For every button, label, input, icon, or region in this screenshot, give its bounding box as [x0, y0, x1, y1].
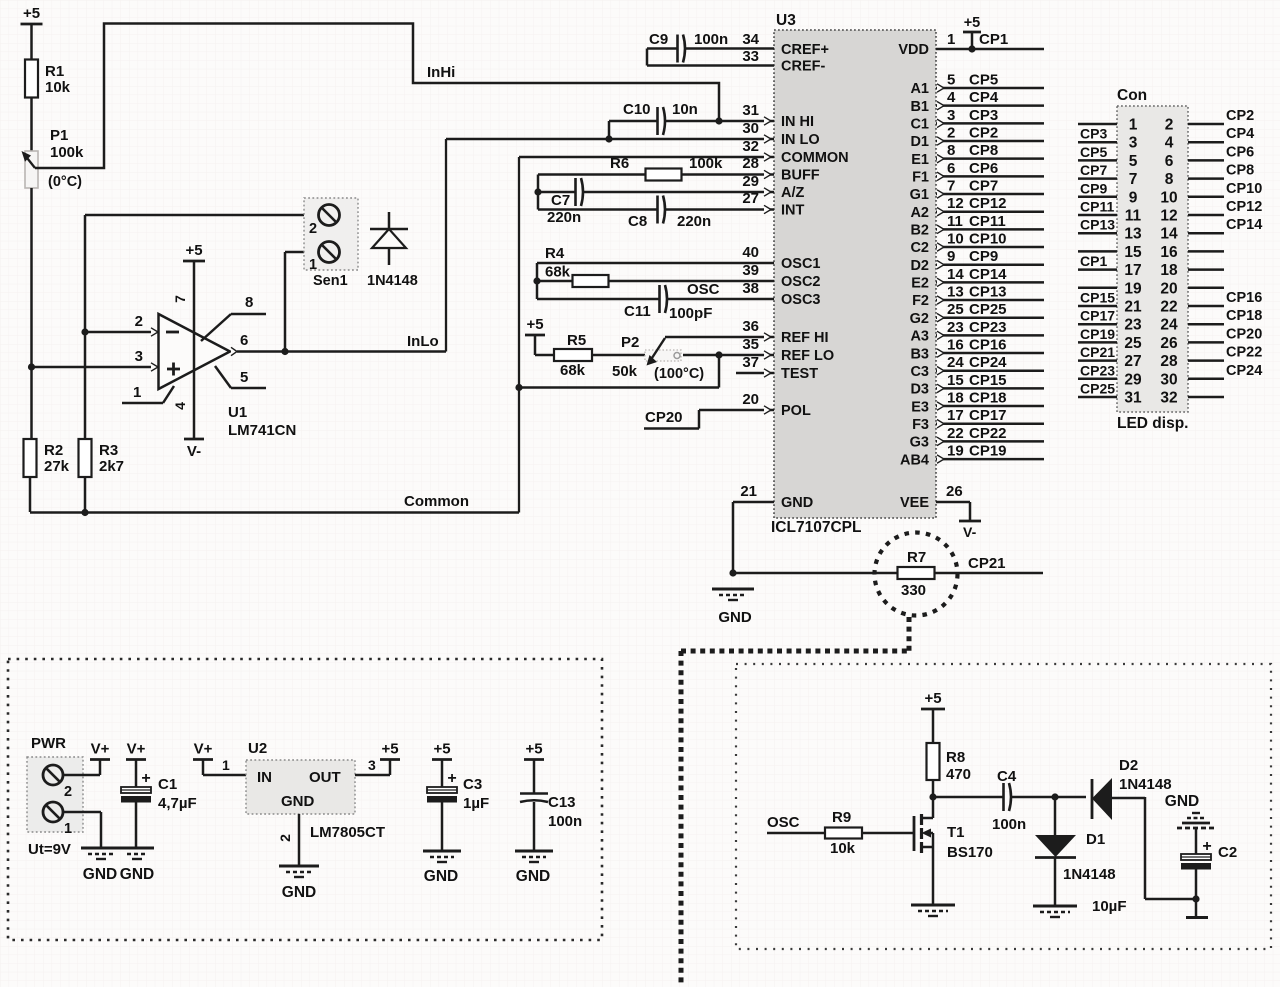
svg-text:CP18: CP18 [969, 390, 1007, 407]
svg-text:9: 9 [947, 248, 955, 265]
svg-text:2: 2 [135, 313, 143, 330]
svg-text:CP4: CP4 [969, 89, 999, 106]
svg-text:470: 470 [946, 766, 971, 783]
svg-text:31: 31 [1124, 390, 1142, 407]
svg-text:E1: E1 [911, 152, 929, 168]
svg-text:23: 23 [1124, 317, 1142, 334]
svg-text:38: 38 [742, 280, 759, 297]
svg-text:+5: +5 [185, 242, 202, 259]
svg-text:VEE: VEE [900, 495, 929, 511]
svg-text:B2: B2 [910, 223, 929, 239]
svg-text:V-: V- [187, 443, 201, 460]
svg-text:IN: IN [257, 769, 272, 786]
svg-text:CP25: CP25 [1080, 381, 1115, 397]
svg-text:3: 3 [1129, 135, 1138, 152]
svg-text:CREF+: CREF+ [781, 42, 829, 58]
svg-text:19: 19 [947, 443, 964, 460]
svg-text:GND: GND [281, 793, 315, 810]
svg-text:Ut=9V: Ut=9V [28, 841, 71, 858]
svg-text:GND: GND [718, 609, 752, 626]
svg-text:CP6: CP6 [1226, 144, 1254, 160]
svg-text:220n: 220n [677, 213, 711, 230]
svg-text:CP13: CP13 [1080, 217, 1115, 233]
svg-text:21: 21 [1124, 299, 1142, 316]
svg-text:CP9: CP9 [1080, 180, 1107, 196]
svg-text:36: 36 [742, 318, 759, 335]
svg-text:D2: D2 [910, 258, 929, 274]
svg-text:330: 330 [901, 582, 926, 599]
svg-text:R2: R2 [44, 442, 63, 459]
svg-text:GND: GND [282, 884, 316, 901]
svg-text:D1: D1 [1086, 831, 1105, 848]
svg-text:16: 16 [947, 337, 964, 354]
svg-text:CP6: CP6 [969, 160, 998, 177]
svg-text:LM7805CT: LM7805CT [310, 824, 385, 841]
svg-text:13: 13 [1124, 226, 1142, 243]
svg-text:2: 2 [1165, 117, 1174, 134]
svg-text:8: 8 [947, 142, 955, 159]
svg-text:4,7µF: 4,7µF [158, 795, 197, 812]
svg-text:OUT: OUT [309, 769, 341, 786]
svg-text:C2: C2 [1218, 844, 1237, 861]
svg-text:13: 13 [947, 284, 964, 301]
svg-text:26: 26 [946, 483, 963, 500]
svg-text:C10: C10 [623, 101, 651, 118]
svg-text:OSC2: OSC2 [781, 274, 821, 290]
svg-text:B3: B3 [910, 346, 929, 362]
svg-text:29: 29 [1124, 371, 1142, 388]
svg-text:22: 22 [947, 425, 964, 442]
svg-text:34: 34 [742, 31, 759, 48]
svg-text:CP16: CP16 [1226, 290, 1262, 306]
svg-text:+: + [447, 770, 456, 787]
svg-text:CREF-: CREF- [781, 59, 825, 75]
svg-text:B1: B1 [910, 99, 929, 115]
svg-text:INT: INT [781, 203, 805, 219]
svg-text:+5: +5 [381, 741, 398, 758]
svg-text:12: 12 [1160, 208, 1177, 225]
svg-text:20: 20 [742, 391, 759, 408]
svg-text:9: 9 [1129, 189, 1138, 206]
svg-text:25: 25 [947, 301, 964, 318]
svg-text:P1: P1 [50, 127, 68, 144]
svg-text:6: 6 [947, 160, 955, 177]
svg-text:CP8: CP8 [1226, 163, 1254, 179]
svg-text:CP18: CP18 [1226, 308, 1262, 324]
svg-text:5: 5 [947, 72, 955, 89]
svg-text:25: 25 [1124, 335, 1142, 352]
svg-text:28: 28 [1160, 353, 1178, 370]
svg-text:CP4: CP4 [1226, 126, 1254, 142]
svg-text:CP1: CP1 [979, 31, 1008, 48]
svg-text:17: 17 [1124, 262, 1141, 279]
svg-text:BS170: BS170 [947, 844, 993, 861]
svg-text:10n: 10n [672, 101, 698, 118]
svg-text:AB4: AB4 [900, 452, 929, 468]
svg-text:CP3: CP3 [969, 107, 998, 124]
svg-text:1: 1 [133, 384, 141, 401]
svg-text:GND: GND [120, 866, 154, 883]
svg-text:32: 32 [742, 138, 759, 155]
svg-text:F2: F2 [912, 293, 929, 309]
svg-text:GND: GND [1165, 793, 1199, 810]
svg-text:R3: R3 [99, 442, 118, 459]
svg-text:CP8: CP8 [969, 142, 998, 159]
svg-text:15: 15 [1124, 244, 1142, 261]
svg-text:2: 2 [309, 221, 317, 237]
svg-text:G2: G2 [910, 311, 929, 327]
svg-text:40: 40 [742, 244, 759, 261]
svg-text:CP23: CP23 [969, 319, 1007, 336]
svg-text:A2: A2 [910, 205, 929, 221]
svg-text:3: 3 [135, 348, 143, 365]
svg-text:Con: Con [1117, 87, 1147, 104]
svg-text:20: 20 [1160, 280, 1177, 297]
svg-text:OSC3: OSC3 [781, 292, 821, 308]
svg-text:C3: C3 [910, 364, 929, 380]
svg-text:IN LO: IN LO [781, 132, 820, 148]
svg-text:A/Z: A/Z [781, 185, 805, 201]
svg-text:Sen1: Sen1 [313, 273, 348, 289]
svg-text:R6: R6 [610, 155, 629, 172]
svg-text:V+: V+ [127, 741, 146, 758]
svg-text:(100°C): (100°C) [654, 366, 704, 382]
svg-text:30: 30 [742, 120, 759, 137]
svg-text:IN HI: IN HI [781, 114, 814, 130]
svg-text:CP19: CP19 [1080, 326, 1115, 342]
svg-text:CP17: CP17 [969, 407, 1007, 424]
svg-text:CP7: CP7 [1080, 162, 1107, 178]
svg-text:11: 11 [947, 213, 963, 230]
svg-text:+: + [1202, 838, 1211, 855]
svg-text:F3: F3 [912, 417, 929, 433]
svg-text:7: 7 [172, 295, 188, 303]
svg-text:5: 5 [240, 369, 248, 386]
svg-text:CP15: CP15 [969, 372, 1007, 389]
svg-text:1: 1 [222, 757, 230, 773]
svg-text:OSC1: OSC1 [781, 256, 821, 272]
svg-text:1N4148: 1N4148 [367, 273, 418, 289]
svg-text:CP10: CP10 [969, 231, 1007, 248]
svg-text:39: 39 [742, 262, 759, 279]
svg-text:100n: 100n [992, 816, 1026, 833]
svg-text:10: 10 [947, 231, 964, 248]
svg-text:CP20: CP20 [1226, 326, 1262, 342]
svg-text:8: 8 [1165, 171, 1174, 188]
svg-text:R5: R5 [567, 332, 586, 349]
svg-text:A1: A1 [910, 81, 929, 97]
svg-text:REF LO: REF LO [781, 348, 834, 364]
svg-text:CP5: CP5 [1080, 144, 1107, 160]
svg-text:1N4148: 1N4148 [1119, 776, 1172, 793]
svg-text:C1: C1 [910, 117, 929, 133]
svg-text:V+: V+ [91, 741, 110, 758]
svg-text:+5: +5 [924, 690, 941, 707]
svg-text:CP9: CP9 [969, 248, 998, 265]
svg-text:R9: R9 [832, 809, 851, 826]
svg-text:CP14: CP14 [1226, 217, 1262, 233]
svg-text:C13: C13 [548, 794, 576, 811]
svg-text:D2: D2 [1119, 757, 1138, 774]
svg-text:35: 35 [742, 336, 759, 353]
svg-text:C9: C9 [649, 31, 668, 48]
svg-text:220n: 220n [547, 209, 581, 226]
svg-text:10: 10 [1160, 189, 1177, 206]
svg-text:10k: 10k [45, 79, 71, 96]
svg-text:12: 12 [947, 195, 964, 212]
svg-text:19: 19 [1124, 280, 1142, 297]
svg-text:CP22: CP22 [1226, 345, 1262, 361]
svg-text:G1: G1 [910, 187, 929, 203]
svg-text:7: 7 [1129, 171, 1138, 188]
svg-text:TEST: TEST [781, 366, 818, 382]
svg-text:6: 6 [1165, 153, 1174, 170]
svg-text:A3: A3 [910, 329, 929, 345]
svg-text:+5: +5 [964, 15, 981, 31]
svg-text:C3: C3 [463, 776, 482, 793]
svg-text:E3: E3 [911, 399, 929, 415]
svg-text:68k: 68k [560, 362, 586, 379]
svg-text:68k: 68k [545, 264, 571, 281]
svg-text:CP3: CP3 [1080, 126, 1107, 142]
svg-text:1: 1 [64, 821, 72, 837]
svg-text:33: 33 [742, 48, 759, 65]
svg-text:27: 27 [1124, 353, 1141, 370]
svg-text:CP1: CP1 [1080, 253, 1107, 269]
svg-text:+: + [141, 770, 150, 787]
svg-text:R8: R8 [946, 749, 965, 766]
svg-text:(0°C): (0°C) [48, 174, 82, 190]
svg-text:17: 17 [947, 407, 964, 424]
svg-text:18: 18 [1160, 262, 1178, 279]
svg-text:1N4148: 1N4148 [1063, 866, 1116, 883]
svg-text:31: 31 [742, 102, 759, 119]
svg-text:100k: 100k [689, 155, 723, 172]
svg-text:11: 11 [1125, 208, 1142, 225]
svg-text:F1: F1 [912, 170, 929, 186]
svg-text:CP21: CP21 [968, 555, 1006, 572]
svg-text:CP16: CP16 [969, 337, 1007, 354]
svg-text:D3: D3 [910, 382, 929, 398]
svg-text:GND: GND [424, 868, 458, 885]
svg-text:50k: 50k [612, 363, 638, 380]
svg-text:C7: C7 [551, 192, 570, 209]
svg-text:30: 30 [1160, 371, 1177, 388]
svg-text:C1: C1 [158, 776, 177, 793]
svg-text:GND: GND [516, 868, 550, 885]
svg-text:OSC: OSC [687, 281, 720, 298]
svg-text:VDD: VDD [898, 42, 929, 58]
svg-text:V-: V- [963, 524, 977, 540]
svg-text:GND: GND [781, 495, 813, 511]
svg-text:26: 26 [1160, 335, 1178, 352]
svg-text:R1: R1 [45, 63, 64, 80]
svg-text:15: 15 [947, 372, 964, 389]
svg-text:1µF: 1µF [463, 795, 489, 812]
svg-text:100n: 100n [548, 813, 582, 830]
svg-text:1: 1 [309, 257, 317, 273]
svg-text:2: 2 [64, 784, 72, 800]
svg-text:PWR: PWR [31, 735, 66, 752]
svg-text:10µF: 10µF [1092, 898, 1127, 915]
svg-text:CP24: CP24 [969, 354, 1007, 371]
svg-text:+5: +5 [525, 741, 542, 758]
svg-text:U3: U3 [776, 12, 796, 29]
svg-text:14: 14 [1160, 226, 1178, 243]
svg-text:CP2: CP2 [1226, 108, 1254, 124]
svg-text:C8: C8 [628, 213, 647, 230]
svg-text:U1: U1 [228, 404, 247, 421]
svg-text:+5: +5 [433, 741, 450, 758]
svg-text:8: 8 [245, 294, 253, 311]
svg-text:CP2: CP2 [969, 125, 998, 142]
svg-text:24: 24 [1160, 317, 1178, 334]
svg-text:1: 1 [1129, 117, 1138, 134]
svg-text:22: 22 [1160, 299, 1177, 316]
svg-text:G3: G3 [910, 435, 929, 451]
svg-text:3: 3 [947, 107, 955, 124]
svg-text:2: 2 [277, 834, 293, 842]
svg-text:CP24: CP24 [1226, 363, 1262, 379]
svg-text:REF HI: REF HI [781, 330, 829, 346]
svg-text:C2: C2 [910, 240, 929, 256]
svg-text:CP14: CP14 [969, 266, 1007, 283]
svg-text:D1: D1 [910, 134, 929, 150]
svg-text:1: 1 [947, 31, 955, 48]
svg-text:CP7: CP7 [969, 178, 998, 195]
svg-text:InHi: InHi [427, 64, 455, 81]
svg-text:ICL7107CPL: ICL7107CPL [771, 519, 861, 536]
svg-text:COMMON: COMMON [781, 150, 849, 166]
svg-text:27: 27 [742, 190, 759, 207]
svg-text:C11: C11 [624, 303, 651, 320]
svg-text:5: 5 [1129, 153, 1138, 170]
svg-text:CP19: CP19 [969, 443, 1007, 460]
svg-text:14: 14 [947, 266, 964, 283]
svg-text:T1: T1 [947, 824, 965, 841]
svg-text:CP23: CP23 [1080, 362, 1115, 378]
svg-text:100k: 100k [50, 144, 84, 161]
svg-text:28: 28 [742, 155, 759, 172]
svg-text:18: 18 [947, 390, 964, 407]
svg-text:CP13: CP13 [969, 284, 1007, 301]
svg-text:+5: +5 [23, 5, 40, 22]
svg-text:GND: GND [83, 866, 117, 883]
svg-text:E2: E2 [911, 276, 929, 292]
svg-text:U2: U2 [248, 740, 267, 757]
svg-text:BUFF: BUFF [781, 168, 820, 184]
svg-text:InLo: InLo [407, 333, 439, 350]
svg-text:37: 37 [742, 354, 759, 371]
svg-text:CP5: CP5 [969, 72, 998, 89]
svg-text:100n: 100n [694, 31, 728, 48]
svg-text:4: 4 [1165, 135, 1174, 152]
svg-text:CP11: CP11 [969, 213, 1006, 230]
svg-text:Common: Common [404, 493, 469, 510]
svg-text:R4: R4 [545, 245, 565, 262]
svg-text:CP21: CP21 [1080, 344, 1115, 360]
svg-text:R7: R7 [907, 549, 926, 566]
svg-text:CP12: CP12 [1226, 199, 1262, 215]
svg-text:CP11: CP11 [1080, 199, 1114, 215]
svg-text:2k7: 2k7 [99, 458, 124, 475]
svg-text:V+: V+ [194, 741, 213, 758]
svg-text:24: 24 [947, 354, 964, 371]
svg-text:4: 4 [947, 89, 956, 106]
svg-text:10k: 10k [830, 840, 856, 857]
svg-text:CP20: CP20 [645, 409, 683, 426]
svg-text:CP10: CP10 [1226, 181, 1262, 197]
svg-text:16: 16 [1160, 244, 1178, 261]
svg-text:C4: C4 [997, 768, 1017, 785]
svg-text:CP25: CP25 [969, 301, 1007, 318]
svg-text:LM741CN: LM741CN [228, 422, 296, 439]
svg-text:OSC: OSC [767, 814, 800, 831]
svg-text:7: 7 [947, 178, 955, 195]
svg-text:21: 21 [740, 483, 757, 500]
svg-text:2: 2 [947, 125, 955, 142]
svg-text:CP12: CP12 [969, 195, 1007, 212]
svg-text:32: 32 [1160, 390, 1177, 407]
svg-text:100pF: 100pF [669, 305, 712, 322]
svg-text:3: 3 [368, 757, 376, 773]
svg-text:CP15: CP15 [1080, 290, 1115, 306]
svg-text:LED disp.: LED disp. [1117, 415, 1188, 432]
svg-text:+5: +5 [526, 316, 543, 333]
svg-text:4: 4 [172, 402, 188, 410]
svg-text:23: 23 [947, 319, 964, 336]
svg-text:POL: POL [781, 403, 811, 419]
svg-text:29: 29 [742, 173, 759, 190]
svg-text:CP17: CP17 [1080, 308, 1115, 324]
svg-text:CP22: CP22 [969, 425, 1007, 442]
svg-text:6: 6 [240, 332, 248, 349]
svg-text:P2: P2 [621, 334, 639, 351]
svg-text:27k: 27k [44, 458, 70, 475]
